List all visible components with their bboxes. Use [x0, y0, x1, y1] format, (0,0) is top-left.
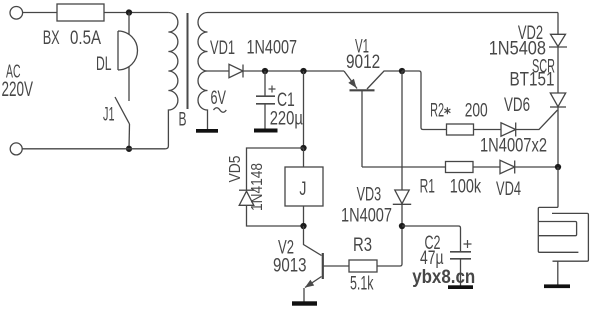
transistor V1 collector lead: [367, 71, 402, 89]
svg-text:1N4148: 1N4148: [249, 163, 266, 211]
diode VD3 branch wire: [401, 71, 403, 190]
svg-text:9013: 9013: [273, 256, 307, 277]
svg-text:5.1k: 5.1k: [350, 274, 374, 295]
fuse BX: [57, 4, 104, 21]
wire relay branch down: [303, 71, 305, 148]
svg-text:R1: R1: [420, 176, 435, 197]
wire V2 emitter to ground: [303, 288, 305, 302]
relay J: [285, 167, 323, 206]
wire VD4 to right node: [515, 166, 558, 168]
transistor V1 emitter arrow: [348, 79, 356, 88]
ground transformer secondary: [196, 129, 218, 133]
wire heater inlet: [538, 167, 578, 252]
svg-text:R2: R2: [430, 100, 444, 121]
svg-text:6V: 6V: [211, 88, 227, 109]
wire V1 base to R1: [362, 166, 446, 168]
switch J1 blade: [115, 97, 130, 124]
svg-text:9012: 9012: [346, 52, 380, 73]
wire VD2 to SCR: [557, 47, 559, 93]
terminal top-left: [10, 7, 23, 20]
wire V1 collector to R2: [402, 71, 447, 130]
wire bottom rail: [22, 148, 165, 150]
resistor R1: [446, 162, 474, 173]
ground C1: [254, 129, 278, 133]
svg-text:J1: J1: [103, 105, 115, 126]
svg-text:R3: R3: [353, 235, 372, 256]
svg-text:VD4: VD4: [496, 179, 521, 200]
resistor R3: [349, 260, 377, 272]
plus sign C2: [464, 240, 472, 248]
ground C2: [448, 285, 473, 289]
svg-text:B: B: [179, 109, 187, 130]
wire top rail from terminal to fuse: [22, 12, 57, 14]
node junction VD5 top: [300, 145, 306, 151]
capacitor C1: [256, 96, 275, 104]
wire switch to bottom rail: [128, 124, 131, 149]
transformer core: [187, 13, 189, 109]
resistor R2: [447, 124, 474, 135]
wire right rail top: [557, 13, 559, 35]
svg-text:0.5A: 0.5A: [70, 28, 101, 49]
svg-text:BT151: BT151: [510, 70, 555, 91]
wire R1 to VD4: [473, 166, 500, 168]
wire dot to bell DL: [128, 13, 130, 35]
node junction relay branch: [300, 68, 306, 74]
ground V2: [292, 301, 317, 305]
wire through fuse to transformer primary top: [57, 12, 168, 14]
plus sign C1: [269, 86, 276, 93]
wire bell to switch: [128, 67, 130, 101]
wire VD5 loop top: [247, 148, 304, 190]
heater bar right: [552, 213, 588, 261]
node junction top (DL branch): [126, 9, 132, 15]
svg-text:220µ: 220µ: [270, 109, 303, 130]
transformer secondary winding: [198, 13, 558, 130]
wire node to C2: [402, 226, 461, 252]
svg-text:200: 200: [465, 100, 488, 121]
wire SCR cathode down: [557, 107, 559, 167]
SCR BT151: [550, 93, 565, 107]
diode VD6: [501, 123, 516, 136]
capacitor C2: [450, 252, 471, 259]
svg-text:1N4007: 1N4007: [247, 37, 298, 58]
node junction V2 collector: [300, 223, 306, 229]
transistor V2 emitter arrow: [305, 280, 314, 288]
diode VD3: [395, 190, 409, 204]
diode VD2: [551, 34, 566, 46]
wire R2 to VD6: [474, 129, 502, 131]
wire relay bottom lead: [303, 206, 305, 226]
svg-text:BX: BX: [43, 28, 60, 49]
node junction V1 collector: [399, 68, 405, 74]
asterisk after R2: [444, 107, 450, 114]
node junction SCR/VD4/heater: [555, 164, 561, 170]
diode VD1: [229, 64, 243, 77]
svg-text:DL: DL: [96, 54, 112, 75]
wire relay top lead: [303, 148, 305, 167]
wire C2 to ground: [460, 259, 462, 286]
tilde under 6V: [214, 108, 227, 113]
svg-text:VD1: VD1: [210, 38, 235, 59]
svg-text:J: J: [299, 179, 306, 200]
ground heater: [544, 284, 570, 288]
svg-text:1N4007x2: 1N4007x2: [480, 135, 547, 156]
wire secondary tap to VD1: [208, 70, 230, 72]
wire VD1 to V1 emitter: [243, 70, 344, 72]
svg-text:VD6: VD6: [504, 95, 530, 116]
svg-text:VD3: VD3: [357, 184, 382, 205]
wire R3 to V2 base: [323, 265, 349, 267]
bell DL: [118, 31, 138, 70]
transistor V2 emitter lead: [305, 277, 322, 288]
diode VD4: [500, 160, 515, 173]
wire VD6 to SCR gate: [516, 110, 558, 130]
wire C1 bottom: [264, 104, 266, 129]
node junction VD3/C2/R3: [399, 223, 405, 229]
svg-text:VD5: VD5: [227, 156, 244, 183]
svg-text:100k: 100k: [450, 176, 482, 197]
svg-text:1N4007: 1N4007: [341, 206, 392, 227]
node junction bottom rail: [126, 146, 132, 152]
transistor V2 collector lead: [304, 226, 322, 256]
heater inner loop: [538, 222, 576, 236]
wire VD5 loop bottom: [247, 205, 304, 226]
transformer primary winding: [165, 13, 178, 149]
diode VD5: [239, 189, 254, 191]
svg-text:ybx8.cn: ybx8.cn: [412, 266, 475, 288]
node junction C1: [262, 68, 268, 74]
terminal bottom-left: [10, 143, 22, 155]
transistor V1 base bar: [350, 89, 375, 91]
wire VD3 to node: [377, 204, 402, 266]
wire C1 top: [264, 71, 266, 96]
svg-text:220V: 220V: [2, 77, 34, 101]
transistor V1 base wire down: [361, 90, 363, 167]
transistor V2 base bar: [322, 253, 324, 279]
heater outlet: [557, 261, 559, 284]
transistor V1 emitter lead: [344, 71, 357, 89]
